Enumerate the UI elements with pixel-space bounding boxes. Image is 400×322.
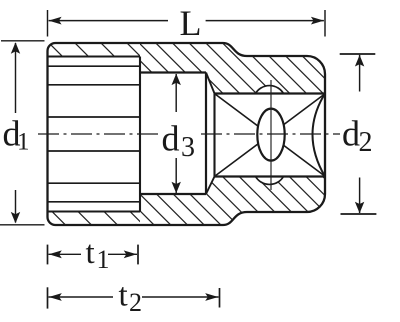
drive square left edge (213, 94, 215, 177)
dim d1 extension line bottom (0, 224, 45, 226)
drive square diagonal (TL-BR) (216, 95, 324, 176)
serration OD line top (48, 55, 141, 57)
dim d2 arrow down (359, 178, 361, 214)
svg-text:d: d (162, 119, 180, 159)
svg-text:d: d (342, 113, 360, 153)
bore top edge (140, 71, 206, 73)
dim d1 arrow up (15, 43, 17, 113)
dim t1 extension tick right (137, 245, 139, 265)
dim t2 line left + arrow (49, 296, 114, 298)
serration profile line bottom 3 (48, 201, 141, 203)
ball groove dome top (256, 86, 284, 94)
dim t1 line right + arrow (108, 253, 137, 255)
dim d2 arrow up (359, 55, 361, 92)
drive square diagonal (BL-TR) (216, 95, 324, 176)
serration profile line top 3 (48, 116, 141, 118)
dim d2 bar bottom (341, 213, 377, 215)
drive square top edge (215, 92, 326, 94)
dim t1 line left + arrow (49, 253, 82, 255)
serration profile line bottom 1 (48, 150, 141, 152)
dim d3 arrow down (175, 158, 177, 193)
dim d1 extension line top (1, 40, 45, 42)
serration profile line top 1 (48, 65, 141, 67)
svg-text:t: t (86, 235, 95, 271)
drive square bottom edge (215, 175, 326, 177)
cross hole ellipse (257, 109, 284, 161)
svg-text:1: 1 (97, 245, 110, 274)
dim t1 extension tick left (47, 245, 49, 265)
serration profile line top 2 (48, 84, 141, 86)
horizontal centerline (left piece) (38, 133, 158, 135)
dim t2 line right + arrow (142, 296, 219, 298)
bore bottom edge (140, 193, 206, 195)
cone chamfer bottom (206, 177, 215, 195)
bore back wall (205, 73, 207, 195)
socket outer profile (48, 43, 326, 225)
dim d3 arrow up (175, 74, 177, 112)
hatching: bottom band and right bottom region (46, 170, 379, 232)
cone chamfer top (206, 73, 215, 94)
svg-text:1: 1 (17, 129, 30, 156)
serration OD line bottom (48, 210, 141, 212)
svg-text:2: 2 (129, 288, 142, 317)
hatching: left top band (44, 38, 397, 100)
dim d1 arrow down (15, 190, 17, 223)
serration/bore shoulder (139, 57, 141, 212)
dim L arrow left (49, 17, 62, 25)
dim L line left piece (49, 20, 168, 22)
serration profile line bottom 2 (48, 182, 141, 184)
svg-text:2: 2 (359, 127, 373, 158)
ball groove dome bottom (256, 177, 284, 185)
dim t2 extension tick right (219, 288, 221, 308)
svg-text:t: t (119, 278, 128, 314)
horizontal centerline (right piece) (201, 133, 340, 135)
dim L extension line left (47, 10, 49, 37)
dim L line right piece (206, 20, 324, 22)
vertical centerline through cross hole (270, 80, 272, 190)
dim d2 bar top (340, 53, 376, 55)
dim t2 extension tick left (47, 287, 49, 308)
svg-text:L: L (180, 3, 202, 43)
dim L arrow right (311, 17, 324, 25)
svg-text:3: 3 (181, 132, 195, 163)
drive square back concave arc (313, 94, 326, 177)
dim L extension line right (324, 10, 326, 37)
